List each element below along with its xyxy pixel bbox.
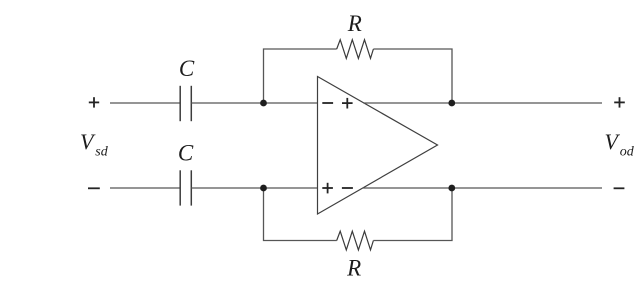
node junction dot bottom-left [260,185,267,192]
svg-text:R: R [347,11,362,36]
resistor R2 (bottom feedback) [337,231,374,250]
output terminal plus sign (right top) [614,97,625,107]
wire bottom feedback right riser [373,188,452,241]
capacitor C2 (bottom) [180,170,191,205]
output terminal minus sign (right bottom) [614,187,625,189]
node junction dot bottom-right [448,185,455,192]
wire bottom output [363,187,602,189]
op-amp noninverting input polarity mark (bottom, plus) [322,183,333,194]
op-amp inverting input polarity mark (top, minus) [322,102,333,104]
wire top feedback right drop [373,49,452,103]
wire bottom input left segment [110,187,180,189]
node junction dot top-left [260,100,267,107]
wire bottom feedback left drop [264,188,337,241]
wire top input left segment [110,102,180,104]
svg-text:Vsd: Vsd [80,129,109,160]
op-amp inverting output polarity mark (bottom, minus) [342,187,353,189]
op-amp noninverting output polarity mark (top, plus) [342,98,353,109]
svg-text:Vod: Vod [605,129,635,160]
input terminal plus sign (left top) [89,97,99,107]
node junction dot top-right [448,100,455,107]
svg-text:R: R [346,256,361,281]
capacitor C1 (top) [180,86,191,121]
wire top feedback left riser [264,49,337,103]
op-amp U1 (fully differential amplifier triangle) [318,77,438,215]
svg-text:C: C [179,56,195,81]
input terminal minus sign (left bottom) [88,187,100,189]
svg-text:C: C [178,141,194,166]
wire bottom input right segment to op-amp [191,187,317,189]
wire top input right segment to op-amp [191,102,317,104]
wire top output [363,102,602,104]
resistor R1 (top feedback) [337,40,374,59]
